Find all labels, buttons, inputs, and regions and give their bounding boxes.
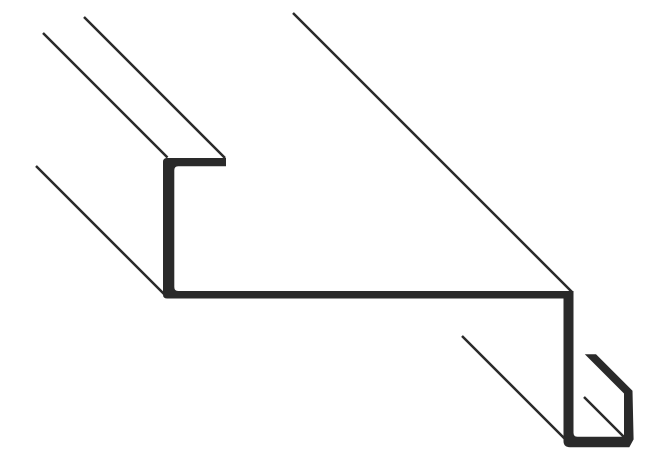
trim profile cross-section (thick outline) xyxy=(163,158,634,447)
extrusion edge line B (to lip right corner) xyxy=(84,17,225,158)
extrusion edge line D (to bottom-left corner) xyxy=(36,166,164,294)
extrusion edge line E (to hook bottom-left corner) xyxy=(462,336,566,440)
extrusion edge line A (to top-left corner) xyxy=(43,33,168,158)
extrusion edge line F (to hook inner corner) xyxy=(584,397,625,438)
extrusion edge line C (to top-right corner) xyxy=(293,13,572,292)
